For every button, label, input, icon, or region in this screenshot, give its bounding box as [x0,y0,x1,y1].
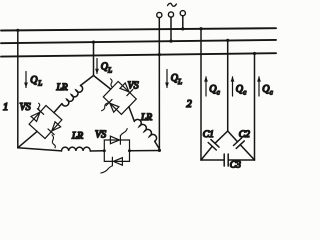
svg-text:2: 2 [187,99,193,110]
node tap top bus x=201 [199,27,202,30]
wire terminal T1 down to delta corner C [158,18,160,151]
wire bus phase A (top) [1,28,276,30]
node T2 tap [169,40,172,43]
svg-text:LR: LR [140,113,152,123]
node VS3 right [128,149,131,152]
node tap top bus x=17.8 [16,29,19,32]
svg-text:LR: LR [56,83,68,93]
svg-text:C2: C2 [239,130,250,140]
svg-text:C1: C1 [203,130,214,140]
svg-text:VS: VS [20,102,31,113]
svg-text:L: L [107,67,112,75]
node VS3 left [103,149,106,152]
gate lead VS3 upper [120,129,127,136]
wire coil to VS1 [54,104,62,113]
capacitor C2 branch wire lower [240,145,254,160]
svg-text:VS: VS [95,130,106,141]
node tap middle bus x=227.7 [226,39,229,42]
terminal T1 [157,12,162,17]
capacitor C1 branch wire lower [201,146,212,160]
capacitor C1 plates [208,140,219,150]
capacitor C2 branch wire upper [228,131,238,142]
wire drop from top bus to delta corner B [17,30,19,148]
inductor LR left leg coil [62,86,83,107]
arrow QL phase B [96,59,98,74]
wire delta right leg upper segment [94,76,111,90]
node T3 tap [181,27,184,30]
wire bottom coil to VS3 [90,150,104,152]
wire VS3 to delta corner C [130,150,160,152]
arrow Qc phase C [258,77,260,96]
node tap middle bus x=93.5 [92,41,95,44]
node delta corner C [158,149,161,152]
svg-text:L: L [37,79,42,87]
wire drop block2 middle from middle bus [227,40,229,131]
capacitor C1 branch wire upper [215,131,228,143]
wire drop block2 right from bottom bus [254,54,256,161]
node T1 bottom-bus tap [158,53,161,56]
wire terminal T3 to top bus [182,16,184,29]
wire delta left leg upper segment [81,76,94,86]
wire VS2 to right coil [129,107,134,122]
terminal T2 [168,12,173,17]
svg-text:LR: LR [71,132,83,142]
wire drop from middle bus to delta apex A [93,42,95,75]
gate lead VS2 upper [111,79,113,88]
svg-text:1: 1 [3,102,8,113]
thyristor valve VS2 (right leg) [100,78,139,117]
wire bottom of capacitor delta left [201,159,224,161]
terminal T3 [180,11,185,16]
wire bus phase B (middle) [1,40,276,43]
thyristor valve VS3 (bottom leg) [104,136,129,166]
arrow Qc phase A [205,77,207,96]
label ~ supply [168,3,177,6]
capacitor C3 plates [224,154,228,166]
wire bus phase C (bottom) [1,53,276,56]
wire terminal T2 to middle bus [170,17,172,41]
thyristor valve VS1 (upper-left leg) [26,103,65,142]
inductor LR right leg coil [134,119,156,141]
wire delta bottom leg left segment [18,148,62,151]
node tap bottom bus x=254.5 [253,52,256,55]
svg-text:L: L [177,78,182,86]
wire bottom of capacitor delta right [228,159,254,161]
arrow QL phase C [166,70,168,88]
arrow QL phase A [25,72,27,88]
wire drop block2 left from top bus [200,29,202,160]
wire VS1 to delta corner B [18,131,37,147]
gate lead VS1 upper [39,103,40,111]
inductor LR bottom leg coil [62,147,91,151]
capacitor C2 plates [234,138,245,148]
svg-text:C3: C3 [230,161,241,171]
wire right coil to delta corner C [155,141,160,149]
arrow Qc phase B [232,77,234,96]
gate lead VS1 lower [52,135,55,148]
gate lead VS3 lower [101,166,113,173]
svg-text:Q: Q [30,75,38,86]
gate lead VS2 lower [102,103,108,111]
svg-text:VS: VS [128,81,139,92]
